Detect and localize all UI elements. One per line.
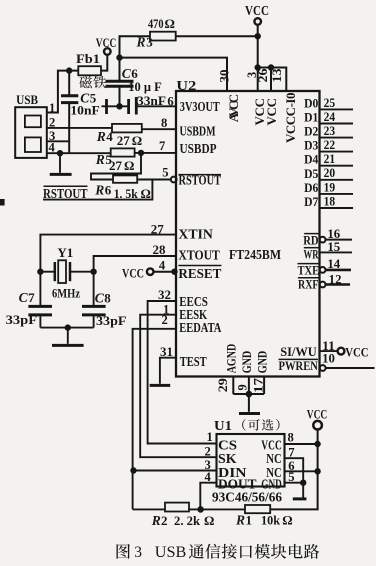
svg-text:R: R xyxy=(96,129,106,144)
svg-text:26: 26 xyxy=(256,69,270,83)
ground (U2 GND) xyxy=(239,412,260,415)
wire pin 13 stub xyxy=(285,67,287,92)
svg-text:D6: D6 xyxy=(304,181,318,195)
wire VCC pin rail xyxy=(258,67,287,69)
wire bead to USB pin1 xyxy=(47,71,78,113)
wire to ground xyxy=(248,394,250,412)
wire R4 to pin 8 USBDM xyxy=(142,128,176,130)
svg-text:1: 1 xyxy=(49,101,55,115)
svg-text:21: 21 xyxy=(324,152,336,166)
svg-text:Ω: Ω xyxy=(282,513,292,528)
capacitor 33nF on 3V3OUT xyxy=(102,105,107,107)
wire USB pin4 / R5 left xyxy=(47,152,111,154)
svg-text:93C46/56/66: 93C46/56/66 xyxy=(212,490,282,505)
svg-text:R: R xyxy=(95,152,105,167)
wire pin 27 XTIN xyxy=(40,235,176,272)
pin 5 bubble xyxy=(171,177,177,183)
svg-text:EEDATA: EEDATA xyxy=(179,320,222,335)
svg-text:5: 5 xyxy=(162,166,168,180)
svg-text:2: 2 xyxy=(162,313,168,327)
svg-text:10nF: 10nF xyxy=(70,102,99,117)
wire pin 1 EESK to U1 SK xyxy=(140,315,216,458)
capacitor C7 33pF xyxy=(39,272,41,306)
svg-text:NC: NC xyxy=(266,451,282,466)
svg-text:AGND: AGND xyxy=(224,344,239,374)
svg-text:CS: CS xyxy=(218,437,237,452)
junction gnd xyxy=(65,325,70,330)
svg-text:RSTOUT: RSTOUT xyxy=(43,186,88,201)
junction R3/VCC xyxy=(255,34,260,39)
junction GND xyxy=(246,391,252,397)
svg-text:Ω: Ω xyxy=(165,16,175,31)
svg-text:27: 27 xyxy=(117,133,131,148)
wire U1 pin7 NC xyxy=(285,458,304,483)
wire U1 pin5 GND xyxy=(285,482,304,484)
svg-text:SI/WU: SI/WU xyxy=(280,345,317,359)
svg-text:1. 5k: 1. 5k xyxy=(114,186,139,201)
wire USB pin2 to R4 xyxy=(47,127,112,129)
wire RSTOUT net label xyxy=(43,180,152,200)
wire VCC vertical xyxy=(257,25,259,68)
junction Y1/C7 xyxy=(38,269,43,274)
power VCC (SI/WU) xyxy=(338,348,345,355)
svg-text:2: 2 xyxy=(161,513,168,528)
svg-text:12: 12 xyxy=(329,272,342,286)
svg-text:R: R xyxy=(235,513,245,528)
svg-text:9: 9 xyxy=(235,384,249,390)
svg-text:29: 29 xyxy=(216,378,230,392)
svg-text:4: 4 xyxy=(159,259,166,273)
svg-text:PWREN: PWREN xyxy=(279,359,319,373)
wire GND pin 9 xyxy=(248,377,250,395)
junction C5 top xyxy=(67,68,72,73)
svg-text:16: 16 xyxy=(327,227,340,241)
svg-text:D7: D7 xyxy=(304,195,318,209)
wire to pin 6 3V3OUT xyxy=(137,105,176,107)
svg-text:27: 27 xyxy=(151,222,164,236)
svg-text:1: 1 xyxy=(207,430,213,444)
svg-text:6MHz: 6MHz xyxy=(52,286,80,300)
svg-text:33pF: 33pF xyxy=(6,312,38,327)
capacitor C8 33pF xyxy=(93,272,95,306)
svg-text:1: 1 xyxy=(246,513,253,528)
ground (crystal) xyxy=(52,344,84,347)
junction pin6/VCC xyxy=(315,469,320,474)
svg-text:4: 4 xyxy=(106,129,113,144)
resistor R5 27ohm xyxy=(111,148,135,156)
svg-text:8: 8 xyxy=(104,291,111,306)
scan speck xyxy=(1,200,5,206)
svg-text:2: 2 xyxy=(205,444,211,458)
ground (U1) xyxy=(293,497,307,500)
wire VCC to RESET pin 4 xyxy=(153,271,176,273)
svg-text:7: 7 xyxy=(28,290,35,305)
resistor R2 2.2kohm xyxy=(165,503,189,512)
wire DIN xyxy=(133,470,217,472)
capacitor C6 10uF xyxy=(119,58,121,81)
svg-text:R: R xyxy=(94,182,104,197)
svg-text:Fb1: Fb1 xyxy=(76,52,100,66)
svg-text:D3: D3 xyxy=(304,139,318,153)
wire USB pin3 xyxy=(47,140,69,142)
capacitor C5 10nF xyxy=(68,71,70,95)
svg-text:D1: D1 xyxy=(304,111,318,125)
wire GND rail xyxy=(233,393,264,395)
junction VCC rail xyxy=(255,65,260,70)
data pin D3 (22) xyxy=(320,151,354,153)
svg-text:USBDM: USBDM xyxy=(180,123,216,138)
wire VCC to bead xyxy=(101,55,107,71)
svg-text:Ω: Ω xyxy=(124,158,134,173)
svg-text:25: 25 xyxy=(324,96,336,110)
svg-text:Ω: Ω xyxy=(132,133,142,148)
wire pin 32 EECS to U1 CS xyxy=(148,301,217,444)
ground (TEST) xyxy=(150,384,171,387)
junction C6 bottom xyxy=(117,104,122,109)
wire pin 2 EEDATA down xyxy=(133,329,176,510)
data pin D4 (21) xyxy=(320,165,354,167)
wire EEDATA rail to R2 xyxy=(133,508,165,510)
wire R3 right xyxy=(176,35,258,37)
wire GND pin 17 xyxy=(263,377,265,395)
wire R2 to R1 xyxy=(189,508,245,510)
svg-text:24: 24 xyxy=(324,110,336,124)
wire VCC vertical to R1 xyxy=(270,429,317,509)
svg-text:27: 27 xyxy=(109,158,123,173)
label (optional) xyxy=(242,419,246,431)
svg-text:USBDP: USBDP xyxy=(180,141,217,156)
svg-text:22: 22 xyxy=(324,138,336,152)
svg-text:GND: GND xyxy=(239,351,254,374)
svg-text:D2: D2 xyxy=(304,125,318,139)
svg-text:D4: D4 xyxy=(304,153,319,167)
data pin D6 (19) xyxy=(320,193,354,195)
junction DOUT/R2/R1 xyxy=(198,507,204,513)
svg-text:2. 2k: 2. 2k xyxy=(174,513,201,528)
wire U1 pin8 VCC xyxy=(285,443,318,445)
svg-text:Y1: Y1 xyxy=(57,246,73,260)
svg-text:USB: USB xyxy=(155,544,187,561)
svg-text:C: C xyxy=(19,290,29,305)
svg-text:15: 15 xyxy=(327,240,340,254)
wire U1 pin6 NC xyxy=(285,470,318,472)
resistor R1 10kohm xyxy=(245,505,270,513)
svg-text:GND: GND xyxy=(255,351,270,374)
net label RSTOUT xyxy=(44,185,88,187)
svg-text:20: 20 xyxy=(324,166,336,180)
wire crystal gnd rail xyxy=(40,327,93,329)
resistor R6 1.5kohm xyxy=(113,175,137,182)
svg-text:VCC: VCC xyxy=(122,265,144,280)
data pin D0 (25) xyxy=(320,108,354,110)
svg-text:VCC: VCC xyxy=(261,437,282,452)
junction pin5/pin7 xyxy=(301,480,306,485)
svg-text:R: R xyxy=(151,513,161,528)
svg-text:RESET: RESET xyxy=(178,266,221,281)
svg-text:470: 470 xyxy=(148,16,164,31)
svg-text:8: 8 xyxy=(288,431,294,445)
data pin D1 (24) xyxy=(320,123,354,125)
svg-text:33pF: 33pF xyxy=(96,313,127,328)
svg-text:10 μ F: 10 μ F xyxy=(128,79,162,94)
wire to ground xyxy=(302,483,304,498)
svg-text:6: 6 xyxy=(105,182,112,197)
svg-text:C: C xyxy=(95,291,105,306)
wire AVCC pin 30 xyxy=(120,58,228,91)
svg-text:TXE: TXE xyxy=(298,263,320,277)
wire R5 to pin 7 USBDP xyxy=(135,152,176,154)
svg-text:XTIN: XTIN xyxy=(178,226,213,241)
svg-text:D0: D0 xyxy=(304,96,318,110)
caption xyxy=(117,544,130,559)
svg-text:U1: U1 xyxy=(214,418,232,433)
wire pin 31 TEST xyxy=(160,358,176,384)
svg-text:USB: USB xyxy=(16,92,38,107)
svg-text:13: 13 xyxy=(270,69,284,83)
wire R6 to pin 5 RSTOUT xyxy=(137,179,171,181)
junction EEDATA/DIN xyxy=(131,468,136,473)
resistor R4 27ohm xyxy=(112,124,142,132)
junction pin8/VCC xyxy=(315,441,320,446)
data pin D7 (18) xyxy=(320,207,354,209)
svg-text:19: 19 xyxy=(324,180,336,194)
svg-text:VCC: VCC xyxy=(264,98,279,126)
wire R3 left xyxy=(120,36,151,57)
wire pin 3 stub xyxy=(257,68,259,92)
IC U2 FT245BM body xyxy=(176,91,320,377)
svg-text:RXF: RXF xyxy=(298,278,319,292)
svg-text:10k: 10k xyxy=(261,513,281,528)
svg-text:Ω: Ω xyxy=(204,513,214,528)
svg-text:VCC: VCC xyxy=(245,3,269,18)
svg-text:6: 6 xyxy=(167,95,173,109)
junction at pin 4 xyxy=(172,269,177,274)
svg-text:30: 30 xyxy=(217,70,231,83)
junction R6 pullup xyxy=(138,150,143,155)
svg-text:TEST: TEST xyxy=(180,354,207,369)
svg-text:10: 10 xyxy=(322,352,335,366)
svg-text:18: 18 xyxy=(324,194,336,208)
svg-text:7: 7 xyxy=(159,139,165,153)
svg-text:Ω: Ω xyxy=(141,186,151,201)
wire AGND pin 29 xyxy=(232,377,234,395)
svg-text:3: 3 xyxy=(134,544,142,561)
junction Y1/C8 xyxy=(91,269,96,274)
svg-text:VCCC-I0: VCCC-I0 xyxy=(283,93,298,144)
svg-text:WR: WR xyxy=(304,248,320,262)
junction pin 26 xyxy=(268,65,273,70)
svg-text:D5: D5 xyxy=(304,167,318,181)
svg-text:RD: RD xyxy=(303,234,318,248)
ground (USB shell) xyxy=(59,153,61,173)
svg-text:XTOUT: XTOUT xyxy=(178,247,220,262)
label citie (ferrite) xyxy=(79,76,92,88)
svg-text:31: 31 xyxy=(160,345,173,359)
svg-text:32: 32 xyxy=(158,288,171,302)
svg-text:8: 8 xyxy=(161,116,167,130)
svg-text:28: 28 xyxy=(153,243,166,257)
svg-text:FT245BM: FT245BM xyxy=(229,247,281,262)
svg-text:VCC: VCC xyxy=(307,406,327,421)
junction gnd drop xyxy=(57,151,62,156)
svg-text:33nF: 33nF xyxy=(137,94,166,108)
wire USBDP to R6 xyxy=(91,153,141,180)
svg-text:SK: SK xyxy=(218,451,237,466)
data pin D5 (20) xyxy=(320,179,354,181)
svg-text:U2: U2 xyxy=(176,78,196,93)
svg-text:AVCC: AVCC xyxy=(226,94,241,123)
wire DOUT drop xyxy=(200,483,216,510)
junction C6/R3/AVCC xyxy=(117,55,122,60)
svg-text:3V3OUT: 3V3OUT xyxy=(180,99,220,114)
svg-text:14: 14 xyxy=(327,257,340,271)
data pin D2 (23) xyxy=(320,137,354,139)
svg-text:23: 23 xyxy=(324,124,336,138)
wire pin 26 stub xyxy=(270,68,272,92)
wire pin 28 XTOUT xyxy=(94,256,176,272)
svg-text:VCC: VCC xyxy=(345,344,368,359)
